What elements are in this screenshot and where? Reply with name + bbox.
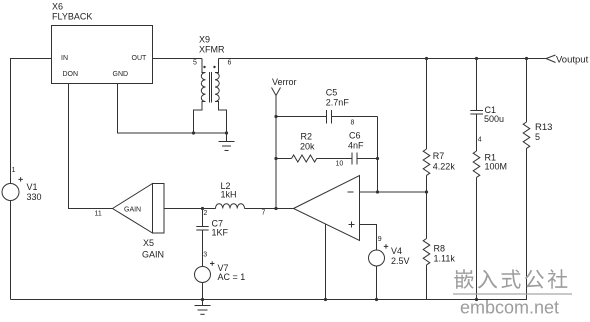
svg-text:DON: DON <box>63 71 79 78</box>
capacitor C5 <box>276 88 378 127</box>
wire V7 to rail and ground <box>195 283 211 315</box>
capacitor C6 <box>336 131 378 168</box>
svg-text:R7: R7 <box>433 151 445 161</box>
svg-text:2.5V: 2.5V <box>391 256 410 266</box>
svg-text:1.11k: 1.11k <box>434 254 456 264</box>
svg-text:Voutput: Voutput <box>556 55 589 66</box>
wire left rail bottom <box>10 201 12 300</box>
wire IN to left rail <box>11 59 52 184</box>
svg-text:GAIN: GAIN <box>124 207 141 214</box>
op-amp U1 <box>294 176 360 241</box>
wire op-amp minus to divider <box>360 190 429 193</box>
wire top rail <box>219 57 546 60</box>
svg-text:C6: C6 <box>349 131 361 141</box>
svg-text:Verror: Verror <box>272 77 297 87</box>
svg-text:10: 10 <box>336 161 344 168</box>
svg-text:2: 2 <box>204 210 208 217</box>
resistor R8 <box>423 192 455 300</box>
svg-text:R2: R2 <box>301 132 313 142</box>
svg-text:X9: X9 <box>199 35 210 45</box>
svg-text:1: 1 <box>12 167 16 174</box>
svg-text:IN: IN <box>61 55 68 62</box>
capacitor C1 <box>470 59 504 152</box>
gain block X5 <box>113 184 165 260</box>
svg-text:100M: 100M <box>485 162 508 172</box>
resistor R7 <box>423 59 455 193</box>
svg-text:V4: V4 <box>391 246 402 256</box>
wire op-amp plus to V4 <box>360 225 382 251</box>
svg-text:X6: X6 <box>52 2 63 12</box>
wire V4 to rail <box>375 266 378 301</box>
svg-text:X5: X5 <box>143 238 154 248</box>
svg-text:5: 5 <box>535 132 540 142</box>
capacitor C7 <box>196 209 228 267</box>
svg-text:5: 5 <box>193 60 197 67</box>
svg-text:1kH: 1kH <box>221 190 237 200</box>
resistor R13 <box>523 59 552 300</box>
svg-text:4: 4 <box>478 137 482 144</box>
svg-text:500u: 500u <box>484 114 504 124</box>
svg-text:7: 7 <box>262 210 266 217</box>
svg-text:11: 11 <box>95 211 102 218</box>
wire GND pin to ground <box>118 84 229 135</box>
voltage source V7 <box>195 261 246 282</box>
svg-text:20k: 20k <box>300 142 315 152</box>
svg-text:GAIN: GAIN <box>142 250 164 260</box>
svg-text:4.22k: 4.22k <box>433 162 456 172</box>
svg-text:4nF: 4nF <box>348 141 364 151</box>
voltage source V1 <box>2 167 42 202</box>
svg-text:AC = 1: AC = 1 <box>218 272 246 282</box>
wire node 7 to op-amp <box>245 209 294 217</box>
svg-text:330: 330 <box>27 192 42 202</box>
node Verror antenna <box>272 77 297 210</box>
svg-text:OUT: OUT <box>132 55 148 62</box>
svg-text:V1: V1 <box>27 182 38 192</box>
svg-text:2.7nF: 2.7nF <box>326 98 350 108</box>
svg-text:3: 3 <box>203 252 207 259</box>
flyback X6 <box>52 2 153 84</box>
svg-text:R8: R8 <box>434 244 446 254</box>
voltage source V4 <box>369 244 410 266</box>
svg-text:1KF: 1KF <box>212 228 229 238</box>
watermark <box>453 269 572 317</box>
wire op-amp ground <box>324 224 327 301</box>
wire bottom rail <box>11 299 528 301</box>
svg-text:XFMR: XFMR <box>199 45 225 55</box>
svg-text:9: 9 <box>378 236 382 243</box>
inductor L2 <box>216 181 245 209</box>
transformer X9 <box>193 35 232 133</box>
resistor R2 <box>276 132 352 163</box>
wire feedback vertical <box>376 117 379 194</box>
resistor R1 <box>473 151 507 301</box>
wire OUT to transformer <box>153 58 203 60</box>
svg-text:8: 8 <box>351 120 355 127</box>
svg-text:FLYBACK: FLYBACK <box>52 12 92 22</box>
wire gain output to node 2 <box>164 207 216 217</box>
svg-text:C5: C5 <box>326 88 338 98</box>
ground (transformer) <box>219 133 235 151</box>
node Voutput connector <box>546 55 589 66</box>
svg-text:GND: GND <box>113 71 129 78</box>
wire DON to gain input <box>69 84 113 218</box>
svg-text:6: 6 <box>228 60 232 67</box>
svg-text:embcom.net: embcom.net <box>460 298 559 318</box>
